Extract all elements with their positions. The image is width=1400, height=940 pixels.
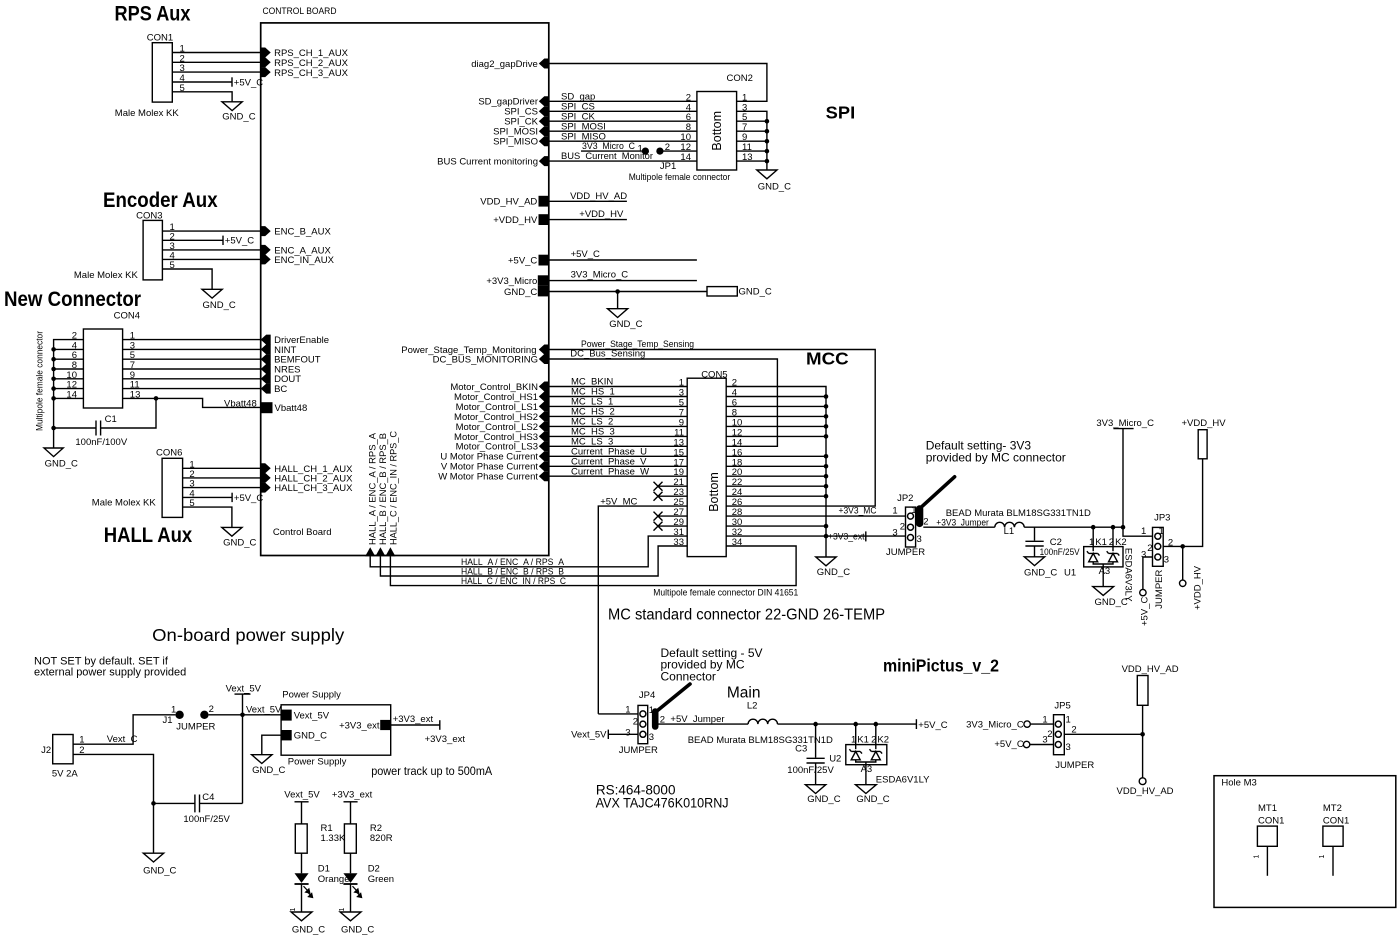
wire CON1 pin2 to board bbox=[172, 61, 260, 63]
wire SD_gap bbox=[549, 100, 697, 102]
wire +5V_MC to JP4 pin1 bbox=[598, 713, 638, 715]
port arrow Motor_Control_HS1 bbox=[539, 392, 549, 402]
wire +3V3_ext out to tap bbox=[391, 724, 440, 726]
svg-text:HALL_C / ENC_IN / RPS_C: HALL_C / ENC_IN / RPS_C bbox=[388, 431, 399, 545]
port arrow Motor_Control_LS2 bbox=[539, 421, 549, 431]
svg-text:GND_C: GND_C bbox=[223, 537, 256, 548]
connector CON3 body bbox=[143, 220, 162, 280]
svg-text:3: 3 bbox=[892, 527, 897, 538]
jumper JP1 pad 2 bbox=[656, 148, 663, 155]
svg-text:33: 33 bbox=[673, 537, 684, 548]
jumper JP2 body bbox=[906, 507, 916, 547]
wire 3V3_Micro_C stub bbox=[549, 280, 697, 282]
pad Vext_5V (power supply in) bbox=[281, 710, 292, 721]
svg-text:CON4: CON4 bbox=[114, 311, 140, 322]
control board outline bbox=[261, 23, 549, 556]
ground GND_C below U2 bbox=[856, 785, 877, 794]
jumper JP2 shunt cap on pins 1-2 bbox=[916, 505, 923, 527]
svg-text:1: 1 bbox=[79, 735, 84, 746]
svg-text:HALL Aux: HALL Aux bbox=[104, 524, 193, 547]
svg-text:VDD_HV_AD: VDD_HV_AD bbox=[570, 191, 627, 202]
svg-text:J1: J1 bbox=[163, 715, 173, 726]
wire JP5 pin2 to VDD_HV_AD node bbox=[1064, 733, 1142, 735]
connector CON5 body bbox=[687, 378, 726, 556]
svg-text:K2: K2 bbox=[877, 735, 889, 746]
wire CON3 pin2 to +5V_C tap bbox=[162, 239, 223, 241]
mount MT2 pad bbox=[1323, 826, 1343, 846]
port pad +VDD_HV bbox=[539, 214, 550, 225]
connector CON1 body bbox=[152, 43, 172, 102]
port arrow DriverEnable bbox=[261, 335, 271, 345]
svg-text:L2: L2 bbox=[747, 700, 758, 711]
junction dots CON2 ground bus bbox=[765, 119, 770, 124]
power tap bar Vext_5V (JP4 pin3) bbox=[607, 730, 609, 739]
svg-text:+5V_C: +5V_C bbox=[234, 493, 263, 504]
svg-text:100nF/100V: 100nF/100V bbox=[75, 437, 127, 448]
wire DC_Bus_Sensing to CON5 pin14 bbox=[549, 359, 778, 446]
port arrow BC bbox=[261, 384, 271, 394]
ESD diode U1 body bbox=[1084, 547, 1123, 567]
capacitor C2 stem top bbox=[1034, 527, 1036, 540]
svg-text:JP5: JP5 bbox=[1054, 700, 1070, 711]
svg-text:2: 2 bbox=[665, 142, 670, 153]
wire JP2 pin2 to inductor L1 bbox=[923, 526, 995, 528]
port arrow SPI_CS bbox=[539, 106, 549, 116]
wire 3V3_Micro_C to JP1 pad1 bbox=[581, 150, 645, 152]
port arrow RPS_CH_3_AUX bbox=[261, 67, 271, 77]
port arrow HALL_CH_3_AUX bbox=[261, 483, 271, 493]
svg-text:GND_C: GND_C bbox=[143, 866, 176, 877]
wire J2 pin1 to J1 pad1 bbox=[73, 715, 175, 744]
svg-text:Bottom: Bottom bbox=[707, 472, 721, 512]
port arrow SD_gapDriver bbox=[539, 96, 549, 106]
svg-text:VDD_HV_AD: VDD_HV_AD bbox=[480, 197, 537, 208]
svg-text:On-board power supply: On-board power supply bbox=[152, 625, 344, 645]
stub CON5 pin21 with no-connect X bbox=[654, 482, 688, 491]
wire HALL_C to CON5 pin34 bbox=[390, 546, 796, 586]
svg-text:2: 2 bbox=[79, 745, 84, 756]
wire CON1 pin1 to board bbox=[172, 52, 260, 54]
capacitor C1 plates bbox=[96, 421, 101, 436]
svg-text:C3: C3 bbox=[795, 744, 807, 755]
svg-text:Hole M3: Hole M3 bbox=[1221, 778, 1256, 789]
open circle testpoint 3V3_Micro_C (JP5) bbox=[1024, 721, 1030, 727]
wire U2 K2 lead bbox=[875, 724, 877, 749]
svg-text:+5V_C: +5V_C bbox=[1140, 597, 1151, 626]
junction dot U1 K2 bbox=[1111, 525, 1116, 530]
svg-text:JUMPER: JUMPER bbox=[886, 547, 925, 558]
wire MC_LS_1 bbox=[549, 405, 687, 407]
pad GND_C (power supply) bbox=[281, 730, 292, 740]
svg-text:Vbatt48: Vbatt48 bbox=[275, 403, 308, 414]
wire +3V3_MC CON5 pin28 to JP2 pin1 bbox=[726, 515, 905, 517]
svg-text:A3: A3 bbox=[861, 764, 873, 775]
wire 3V3_Micro_C testpoint to JP5 pin1 bbox=[1030, 723, 1053, 725]
mount MT1 pin stem bbox=[1266, 846, 1268, 876]
svg-text:GND_C: GND_C bbox=[817, 567, 850, 578]
ground GND_C below CON1 pin5 bbox=[222, 102, 242, 111]
svg-text:GND_C: GND_C bbox=[341, 925, 374, 936]
power symbol +3V3_ext bar (R2) bbox=[344, 801, 358, 803]
junction dots CON5 ground bus bbox=[824, 394, 829, 399]
wire J2 pin2 down to C4 row bbox=[73, 754, 153, 803]
port arrow Motor_Control_LS1 bbox=[539, 401, 549, 411]
port arrow SPI_MOSI bbox=[539, 126, 549, 136]
svg-text:100nF/25V: 100nF/25V bbox=[1040, 547, 1081, 558]
power supply module body bbox=[281, 705, 391, 755]
svg-text:+3V3_ext: +3V3_ext bbox=[828, 532, 865, 543]
port arrow Motor_Control_BKIN bbox=[539, 382, 549, 392]
stub CON5 pin27 with no-connect X bbox=[654, 512, 688, 521]
wire JP3 pin3 from +5V_C testpoint bbox=[1143, 557, 1153, 589]
svg-text:Green: Green bbox=[368, 874, 394, 885]
junction dot JP5 pin2 node bbox=[1140, 732, 1145, 737]
svg-text:CON2: CON2 bbox=[727, 73, 753, 84]
svg-text:+3V3_ext: +3V3_ext bbox=[425, 734, 466, 745]
svg-text:Main: Main bbox=[727, 684, 761, 701]
power tap bar +5V_C pin4 bbox=[231, 77, 233, 86]
svg-text:1: 1 bbox=[892, 505, 897, 516]
jumper JP1 pad 1 bbox=[642, 148, 649, 155]
port pad GND_C bbox=[538, 286, 549, 296]
resistor R2 body bbox=[344, 824, 356, 853]
svg-text:GND_C: GND_C bbox=[856, 794, 889, 805]
wire CON4 pin13 Vbatt48 bbox=[123, 398, 261, 407]
wire VDD_HV_AD stub bbox=[549, 200, 627, 202]
svg-text:1: 1 bbox=[1254, 855, 1261, 859]
LED D2 emission arrows bbox=[353, 886, 362, 897]
wire diag2_gapDrive to CON2 pin1 bbox=[549, 64, 767, 102]
svg-text:3: 3 bbox=[1141, 550, 1146, 561]
svg-text:Multipole female connector: Multipole female connector bbox=[629, 172, 731, 183]
svg-text:2: 2 bbox=[633, 717, 638, 728]
LED D1 body bbox=[295, 873, 309, 883]
svg-text:GND_C: GND_C bbox=[609, 319, 642, 330]
open circle testpoint +5V_C bbox=[1140, 589, 1146, 595]
power tap bar +3V3_ext (power supply out) bbox=[439, 720, 441, 730]
svg-text:K1: K1 bbox=[857, 735, 869, 746]
wire MC_LS_3 bbox=[549, 445, 687, 447]
svg-text:JP2: JP2 bbox=[897, 493, 913, 504]
wire +3V3_ext CON5 pin32 to JP2 pin3 bbox=[726, 535, 905, 537]
wire CON5 right even pins to ground bus bbox=[726, 387, 826, 558]
jumper JP4 shunt cap on pins 1-2 bbox=[652, 708, 659, 730]
svg-text:Multipole female connector DIN: Multipole female connector DIN 41651 bbox=[653, 587, 798, 598]
svg-text:2: 2 bbox=[900, 522, 905, 533]
svg-text:MT2: MT2 bbox=[1323, 803, 1342, 814]
svg-text:Male Molex KK: Male Molex KK bbox=[115, 108, 180, 119]
wire J1 pad2 to Power Supply Vext_5V bbox=[209, 714, 282, 716]
ESD diode U2 body bbox=[846, 745, 887, 765]
svg-text:AVX TAJC476K010RNJ: AVX TAJC476K010RNJ bbox=[596, 796, 729, 811]
junction dot Vext_5V node bbox=[240, 713, 245, 718]
wire MC_HS_1 bbox=[549, 396, 687, 398]
svg-text:CON1: CON1 bbox=[1323, 815, 1349, 826]
wire CON4 pin7 NRES bbox=[123, 368, 261, 370]
wire U2 A3 stem to ground bbox=[865, 762, 867, 785]
svg-text:diag2_gapDrive: diag2_gapDrive bbox=[471, 59, 538, 70]
svg-text:+3V3_ext: +3V3_ext bbox=[339, 721, 380, 732]
ground GND_C (board edge row) bbox=[608, 309, 628, 318]
svg-text:2: 2 bbox=[209, 704, 214, 715]
port arrow U Motor Phase Current bbox=[539, 451, 549, 461]
wire U1 anode join bbox=[1093, 562, 1113, 564]
svg-text:+5V_C: +5V_C bbox=[508, 255, 537, 266]
wire SPI_CS bbox=[549, 110, 697, 112]
capacitor C2 stem bottom to ground bbox=[1034, 546, 1036, 557]
jumper JP4 pin circles bbox=[640, 711, 646, 737]
wire CON4 pin3 NINT bbox=[123, 348, 261, 350]
wire CON1 pin3 to board bbox=[172, 71, 260, 73]
power symbol Vext_5V bar (R1) bbox=[295, 801, 309, 803]
svg-text:1: 1 bbox=[911, 505, 916, 516]
svg-text:U2: U2 bbox=[829, 753, 841, 764]
svg-text:CON1: CON1 bbox=[1258, 815, 1284, 826]
svg-text:Control Board: Control Board bbox=[273, 527, 332, 538]
ground GND_C below U1 bbox=[1093, 587, 1114, 596]
svg-text:C4: C4 bbox=[202, 792, 214, 803]
junction dot U2 K2 bbox=[874, 722, 879, 727]
svg-text:miniPictus_v_2: miniPictus_v_2 bbox=[883, 656, 999, 676]
svg-text:Vext_C: Vext_C bbox=[107, 734, 138, 745]
power symbol VDD_HV_AD fuse box bbox=[1137, 676, 1148, 706]
svg-text:A3: A3 bbox=[1099, 566, 1111, 577]
svg-text:2: 2 bbox=[1168, 538, 1173, 549]
svg-text:L1: L1 bbox=[1004, 526, 1015, 537]
wire JP4 pin2 to inductor L2 bbox=[659, 723, 749, 725]
svg-text:SPI: SPI bbox=[826, 103, 856, 123]
wire R1 to D1 bbox=[301, 853, 303, 873]
wire GND_C row to net-tie bbox=[549, 291, 707, 293]
svg-text:JUMPER: JUMPER bbox=[1055, 760, 1094, 771]
svg-text:3V3_Micro_C: 3V3_Micro_C bbox=[1096, 418, 1154, 429]
junction dot U1 K1 bbox=[1091, 525, 1096, 530]
port pad +5V_C bbox=[539, 255, 550, 266]
wire CON2 right pins to ground bus bbox=[737, 111, 767, 170]
svg-text:MCC: MCC bbox=[806, 348, 849, 368]
port arrow HALL_CH_2_AUX bbox=[261, 473, 271, 483]
wire Vext_5V tap to JP4 pin3 bbox=[608, 733, 638, 735]
wire CON6 pin4 to +5V_C tap bbox=[183, 496, 233, 498]
svg-text:JUMPER: JUMPER bbox=[1154, 570, 1165, 609]
svg-text:D2: D2 bbox=[368, 863, 380, 874]
power tap bar +3V3_ext bbox=[865, 531, 867, 541]
mount MT1 pad bbox=[1257, 826, 1277, 846]
svg-text:JUMPER: JUMPER bbox=[176, 722, 215, 733]
Hole M3 frame bbox=[1214, 776, 1396, 908]
mount MT2 pin stem bbox=[1332, 846, 1334, 876]
port arrow ENC_A_AUX bbox=[261, 245, 271, 255]
stub CON5 pin29 with no-connect X bbox=[654, 522, 688, 531]
svg-text:K1: K1 bbox=[1095, 537, 1107, 548]
junction dot C4 / J2 pin2 bbox=[151, 801, 156, 806]
svg-text:provided by MC connector: provided by MC connector bbox=[926, 451, 1066, 465]
wire U2 anode join bbox=[856, 760, 876, 762]
port pad Vbatt48 bbox=[262, 402, 273, 413]
svg-text:+5V_Jumper: +5V_Jumper bbox=[670, 714, 724, 725]
svg-text:3: 3 bbox=[649, 732, 654, 743]
jumper JP3 pin circles bbox=[1155, 533, 1161, 560]
svg-text:CON1: CON1 bbox=[147, 33, 173, 44]
svg-text:JUMPER: JUMPER bbox=[619, 745, 658, 756]
net-tie box GND_C bbox=[707, 287, 737, 296]
port arrow ENC_B_AUX bbox=[261, 226, 271, 236]
stub CON5 pin23 with no-connect X bbox=[654, 492, 688, 501]
port arrow W Motor Phase Current bbox=[539, 471, 549, 481]
svg-text:GND_C: GND_C bbox=[292, 925, 325, 936]
port arrow V Motor Phase Current bbox=[539, 461, 549, 471]
connector CON6 body bbox=[162, 458, 183, 517]
wire C4 row left segment bbox=[154, 802, 195, 804]
svg-text:MT1: MT1 bbox=[1258, 803, 1277, 814]
wire CON1 pin5 to ground bbox=[172, 92, 232, 102]
wire MC_LS_2 bbox=[549, 425, 687, 427]
ground GND_C below C4 junction bbox=[143, 853, 163, 862]
wire CON3 pin3 to board bbox=[162, 249, 260, 251]
svg-text:GND_C: GND_C bbox=[222, 112, 255, 123]
svg-text:+VDD_HV: +VDD_HV bbox=[579, 209, 624, 220]
svg-text:+3V3_Micro: +3V3_Micro bbox=[486, 276, 537, 287]
zener diode U1 K2 bbox=[1107, 551, 1120, 562]
svg-text:+5V_C: +5V_C bbox=[994, 739, 1023, 750]
junction dot C1 to Vbatt48 bbox=[154, 396, 159, 401]
wire +VDD_HV stub bbox=[549, 219, 627, 221]
connector J2 body bbox=[53, 735, 73, 764]
wire power supply GND_C to ground bbox=[262, 735, 281, 755]
callout pointer line to JP2 bbox=[922, 477, 955, 507]
wire MC_BKIN bbox=[549, 386, 687, 388]
port arrow BEMFOUT bbox=[261, 354, 271, 364]
wire CON4 pin5 BEMFOUT bbox=[123, 358, 261, 360]
wire +5V_MC to CON5 pin25 bbox=[598, 506, 687, 714]
svg-text:2: 2 bbox=[871, 735, 876, 746]
ground GND_C below CON6 pin5 bbox=[222, 527, 242, 536]
svg-text:GND_C: GND_C bbox=[294, 731, 327, 742]
wire C4 row right segment bbox=[200, 802, 243, 804]
svg-text:Power Supply: Power Supply bbox=[282, 690, 341, 701]
svg-text:GND_C: GND_C bbox=[1024, 567, 1057, 578]
port arrow Power_Stage_Temp_Monitoring bbox=[539, 345, 549, 355]
resistor R1 body bbox=[295, 824, 307, 853]
svg-text:BUS_Current_Monitor: BUS_Current_Monitor bbox=[561, 151, 653, 162]
wire +5V_C testpoint to JP5 pin3 bbox=[1030, 744, 1054, 746]
capacitor C2 plates bbox=[1025, 541, 1043, 546]
svg-text:U1: U1 bbox=[1064, 567, 1076, 578]
connector CON2 body bbox=[697, 92, 737, 171]
wire CON3 pin5 to ground bbox=[162, 269, 212, 289]
svg-text:820R: 820R bbox=[370, 833, 393, 844]
svg-text:RPS_CH_3_AUX: RPS_CH_3_AUX bbox=[274, 68, 349, 79]
svg-text:+5V_MC: +5V_MC bbox=[600, 496, 637, 507]
svg-text:1: 1 bbox=[171, 704, 176, 715]
wire 3V3_Micro_C down to junction bbox=[1123, 429, 1153, 537]
svg-text:GND_C: GND_C bbox=[504, 287, 537, 298]
svg-text:J2: J2 bbox=[41, 745, 51, 756]
jumper JP2 pin circles bbox=[908, 513, 914, 540]
zener diode U2 K2 bbox=[870, 749, 883, 760]
svg-text:MC standard connector 22-GND 2: MC standard connector 22-GND 26-TEMP bbox=[608, 607, 885, 624]
svg-text:DC_BUS_MONITORING: DC_BUS_MONITORING bbox=[433, 354, 538, 365]
LED D2 body bbox=[343, 873, 357, 883]
port arrow Motor_Control_HS3 bbox=[539, 431, 549, 441]
inductor L2 bbox=[748, 719, 777, 724]
wire U1 K1 lead bbox=[1092, 527, 1094, 551]
svg-text:Connector: Connector bbox=[661, 669, 716, 683]
port arrow Motor_Control_HS2 bbox=[539, 411, 549, 421]
svg-text:VDD_HV_AD: VDD_HV_AD bbox=[1122, 664, 1179, 675]
svg-text:1: 1 bbox=[339, 908, 346, 912]
svg-text:JP1: JP1 bbox=[660, 161, 676, 172]
svg-text:Encoder Aux: Encoder Aux bbox=[103, 189, 218, 212]
svg-text:1: 1 bbox=[1066, 714, 1071, 725]
power tap bar +5V_C (main rail) bbox=[915, 719, 917, 729]
power tap bar +5V_C (CON6 pin4) bbox=[231, 493, 233, 502]
svg-text:1: 1 bbox=[649, 705, 654, 716]
svg-text:34: 34 bbox=[732, 537, 743, 548]
wire CON6 pin3 to board bbox=[183, 487, 261, 489]
wire CON3 pin1 to board bbox=[162, 230, 260, 232]
svg-text:power track up to 500mA: power track up to 500mA bbox=[371, 764, 492, 778]
junction dot U2 K1 bbox=[853, 722, 858, 727]
wire JP3 pin2 testpoint stub bbox=[1182, 546, 1184, 580]
svg-text:1: 1 bbox=[290, 908, 297, 912]
svg-text:HALL_A / ENC_A / RPS_A: HALL_A / ENC_A / RPS_A bbox=[368, 432, 379, 545]
jumper J1 pad 1 bbox=[175, 711, 183, 719]
svg-text:Multipole female connector: Multipole female connector bbox=[35, 331, 46, 431]
svg-text:Current_Phase_W: Current_Phase_W bbox=[571, 466, 649, 477]
wire CON1 pin4 to +5V_C tap bbox=[172, 81, 232, 83]
ground GND_C (D1) bbox=[291, 912, 312, 921]
junction dot C3 bbox=[813, 722, 818, 727]
power symbol Vext_5V bar bbox=[235, 693, 251, 695]
svg-text:ENC_IN_AUX: ENC_IN_AUX bbox=[274, 255, 334, 266]
svg-text:3: 3 bbox=[917, 534, 922, 545]
svg-text:2: 2 bbox=[923, 517, 928, 528]
svg-text:Bottom: Bottom bbox=[710, 111, 724, 151]
svg-text:1: 1 bbox=[1089, 537, 1094, 548]
connector CON4 body bbox=[83, 329, 122, 408]
svg-text:3V3_Micro_C: 3V3_Micro_C bbox=[966, 719, 1024, 730]
svg-text:CONTROL BOARD: CONTROL BOARD bbox=[263, 6, 337, 17]
wire R2 to D2 bbox=[350, 853, 352, 873]
wire L2 to +5V_C tap bbox=[778, 723, 917, 725]
capacitor C3 stem top bbox=[815, 724, 817, 758]
wire Vext_5V bar down through junction to C4 bbox=[242, 694, 244, 803]
svg-text:K2: K2 bbox=[1115, 537, 1127, 548]
svg-text:+3V3_MC: +3V3_MC bbox=[839, 505, 877, 516]
wire MC_HS_3 bbox=[549, 435, 687, 437]
svg-text:2: 2 bbox=[1109, 537, 1114, 548]
wire SPI_CK bbox=[549, 120, 697, 122]
ground GND_C below CON5 bus bbox=[816, 557, 836, 566]
svg-text:Power Supply: Power Supply bbox=[288, 756, 347, 767]
svg-text:ESDA6V3LY: ESDA6V3LY bbox=[1123, 548, 1134, 602]
wire L1 to 3V3_Micro_C junction bbox=[1024, 526, 1123, 528]
zener diode U1 K1 bbox=[1087, 551, 1100, 562]
svg-text:JP3: JP3 bbox=[1154, 513, 1170, 524]
jumper JP4 body bbox=[638, 705, 648, 743]
board-edge arrow HALL_B bbox=[375, 547, 385, 556]
jumper J1 pad 2 bbox=[200, 711, 208, 719]
svg-text:Vext_5V: Vext_5V bbox=[294, 711, 330, 722]
wire VDD_HV_AD box down through junction to testpoint bbox=[1142, 705, 1144, 778]
svg-text:2: 2 bbox=[1147, 543, 1152, 554]
open circle testpoint VDD_HV_AD bbox=[1139, 778, 1146, 785]
svg-text:+VDD_HV: +VDD_HV bbox=[1182, 418, 1227, 429]
wire Power_Stage_Temp_Sensing to CON5 pin26 bbox=[549, 350, 875, 507]
svg-text:VDD_HV_AD: VDD_HV_AD bbox=[1117, 786, 1174, 797]
svg-text:1: 1 bbox=[1042, 714, 1047, 725]
